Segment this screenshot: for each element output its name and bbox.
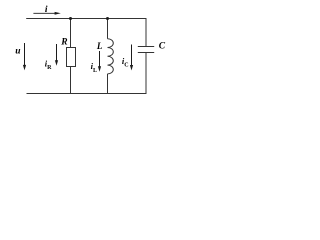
svg-text:C: C xyxy=(159,42,166,52)
svg-text:u: u xyxy=(15,47,20,57)
svg-text:iR: iR xyxy=(45,58,52,71)
svg-text:iC: iC xyxy=(122,56,129,69)
svg-text:i: i xyxy=(45,5,48,15)
capacitor C plates xyxy=(138,47,154,53)
svg-text:L: L xyxy=(96,41,103,51)
voltage arrow u xyxy=(23,43,26,70)
node junction top-R xyxy=(69,17,72,20)
svg-text:R: R xyxy=(60,38,67,48)
current arrow iR xyxy=(55,44,58,66)
svg-text:iL: iL xyxy=(91,61,97,74)
current arrow iL xyxy=(98,51,101,72)
current arrow i xyxy=(33,12,60,15)
current arrow iC xyxy=(130,45,133,71)
resistor R xyxy=(67,48,76,67)
wire bottom xyxy=(27,93,147,95)
node junction top-L xyxy=(106,17,109,20)
wire L branch upper xyxy=(107,19,109,39)
wire R branch upper xyxy=(70,19,72,48)
inductor L xyxy=(108,39,114,74)
wire C branch lower xyxy=(145,53,147,94)
wire L branch lower xyxy=(107,74,109,94)
wire top xyxy=(26,18,146,20)
wire right (down to capacitor) xyxy=(145,19,147,47)
wire R branch lower xyxy=(70,67,72,94)
